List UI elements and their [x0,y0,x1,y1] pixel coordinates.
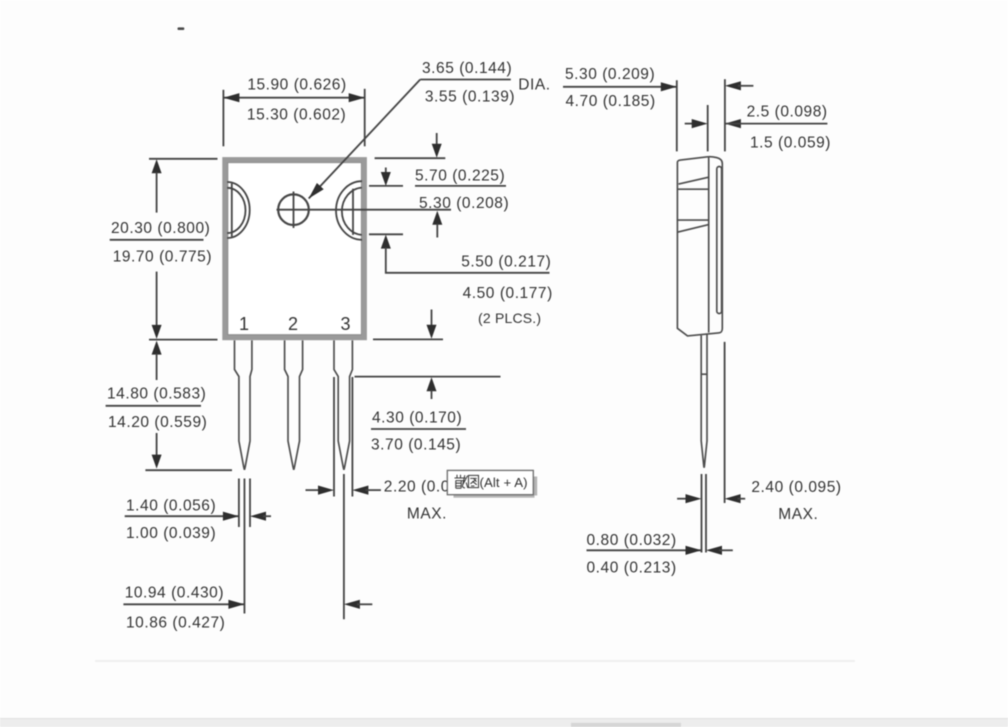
dim 5.30/4.70 body thickness [563,66,753,151]
package body outline [225,160,364,338]
svg-text:(2 PLCS.): (2 PLCS.) [478,310,541,326]
svg-text:1.5 (0.059): 1.5 (0.059) [750,135,831,152]
dim 1.40/1.00 lead narrow width [125,479,271,614]
svg-text:5.30 (0.209): 5.30 (0.209) [565,66,655,83]
svg-text:4.30 (0.170): 4.30 (0.170) [372,410,462,427]
mold line 4 [677,225,708,233]
svg-text:15.90 (0.626): 15.90 (0.626) [247,77,346,94]
glyph 图 [469,475,479,487]
dim 20.30/19.70 body height [110,159,218,340]
svg-text:2.5 (0.098): 2.5 (0.098) [747,104,828,121]
mold line 1 [679,177,709,184]
svg-text:2: 2 [288,314,298,334]
mounting hole [278,194,309,225]
mold line 2 [677,188,708,190]
hole centerline vertical [293,192,295,229]
faint horizontal artifact line [95,660,855,662]
dim 5.50/4.50 (2 PLCS.) notch [369,168,553,327]
svg-text:1.00 (0.039): 1.00 (0.039) [126,525,216,542]
side body outline [677,157,722,336]
right notch [336,181,362,240]
hole centerline horizontal (extends right to 5.30 dim) [277,209,452,211]
dim 0.80/0.40 lead thickness [587,474,733,577]
lead 1 [235,340,252,469]
mold line 3 [677,219,709,221]
svg-text:10.94 (0.430): 10.94 (0.430) [125,585,224,602]
svg-text:0.80 (0.032): 0.80 (0.032) [587,532,677,549]
lead 2 [285,340,303,469]
dim 2.40 MAX [677,342,841,523]
svg-text:4.50 (0.177): 4.50 (0.177) [463,285,553,302]
side lead [701,335,707,468]
svg-text:3: 3 [340,314,350,334]
lead shoulder tick [701,373,707,375]
svg-text:5.70 (0.225): 5.70 (0.225) [415,168,505,185]
svg-text:3.55 (0.139): 3.55 (0.139) [425,89,515,106]
svg-text:15.30 (0.602): 15.30 (0.602) [247,107,346,124]
svg-text:14.20 (0.559): 14.20 (0.559) [108,414,207,431]
svg-text:0.40 (0.213): 0.40 (0.213) [587,560,677,577]
screenshot tooltip overlay [447,470,537,497]
svg-text:MAX.: MAX. [407,506,447,523]
dim 5.70/5.30 hole center from top [375,133,510,238]
dim 10.94/10.86 lead span [123,474,372,632]
svg-text:DIA.: DIA. [518,77,550,94]
svg-text:10.86 (0.427): 10.86 (0.427) [126,615,225,632]
left notch [227,182,249,238]
glyph 截 [455,475,468,488]
svg-text:1: 1 [239,314,249,334]
svg-text:4.70 (0.185): 4.70 (0.185) [566,93,656,110]
svg-text:20.30 (0.800): 20.30 (0.800) [111,220,210,237]
svg-text:5.50 (0.217): 5.50 (0.217) [461,254,551,271]
bottom scrollbar bar [0,719,1008,727]
svg-text:3.65 (0.144): 3.65 (0.144) [422,60,512,77]
svg-text:MAX.: MAX. [778,506,818,523]
svg-text:3.70 (0.145): 3.70 (0.145) [371,437,461,454]
dim 3.65/3.55 DIA hole leader [309,60,551,199]
stray dark dash top-left [178,27,185,30]
dim 15.90/15.30 body width [223,77,364,147]
svg-text:14.80 (0.583): 14.80 (0.583) [107,386,206,403]
tab slot [717,167,722,314]
dim 2.20 MAX lead wide width [306,377,474,523]
lead 3 [334,340,352,469]
svg-text:(Alt + A): (Alt + A) [480,475,528,490]
inner face line [708,158,710,333]
svg-text:2.40 (0.095): 2.40 (0.095) [751,479,841,496]
dim 4.30/3.70 shoulder length [355,310,501,454]
svg-text:19.70 (0.775): 19.70 (0.775) [113,249,212,266]
dim 2.5/1.5 tab thickness [685,104,831,152]
dim 14.80/14.20 lead length [106,341,232,471]
svg-text:5.30 (0.208): 5.30 (0.208) [419,195,509,212]
svg-text:1.40 (0.056): 1.40 (0.056) [126,498,216,515]
